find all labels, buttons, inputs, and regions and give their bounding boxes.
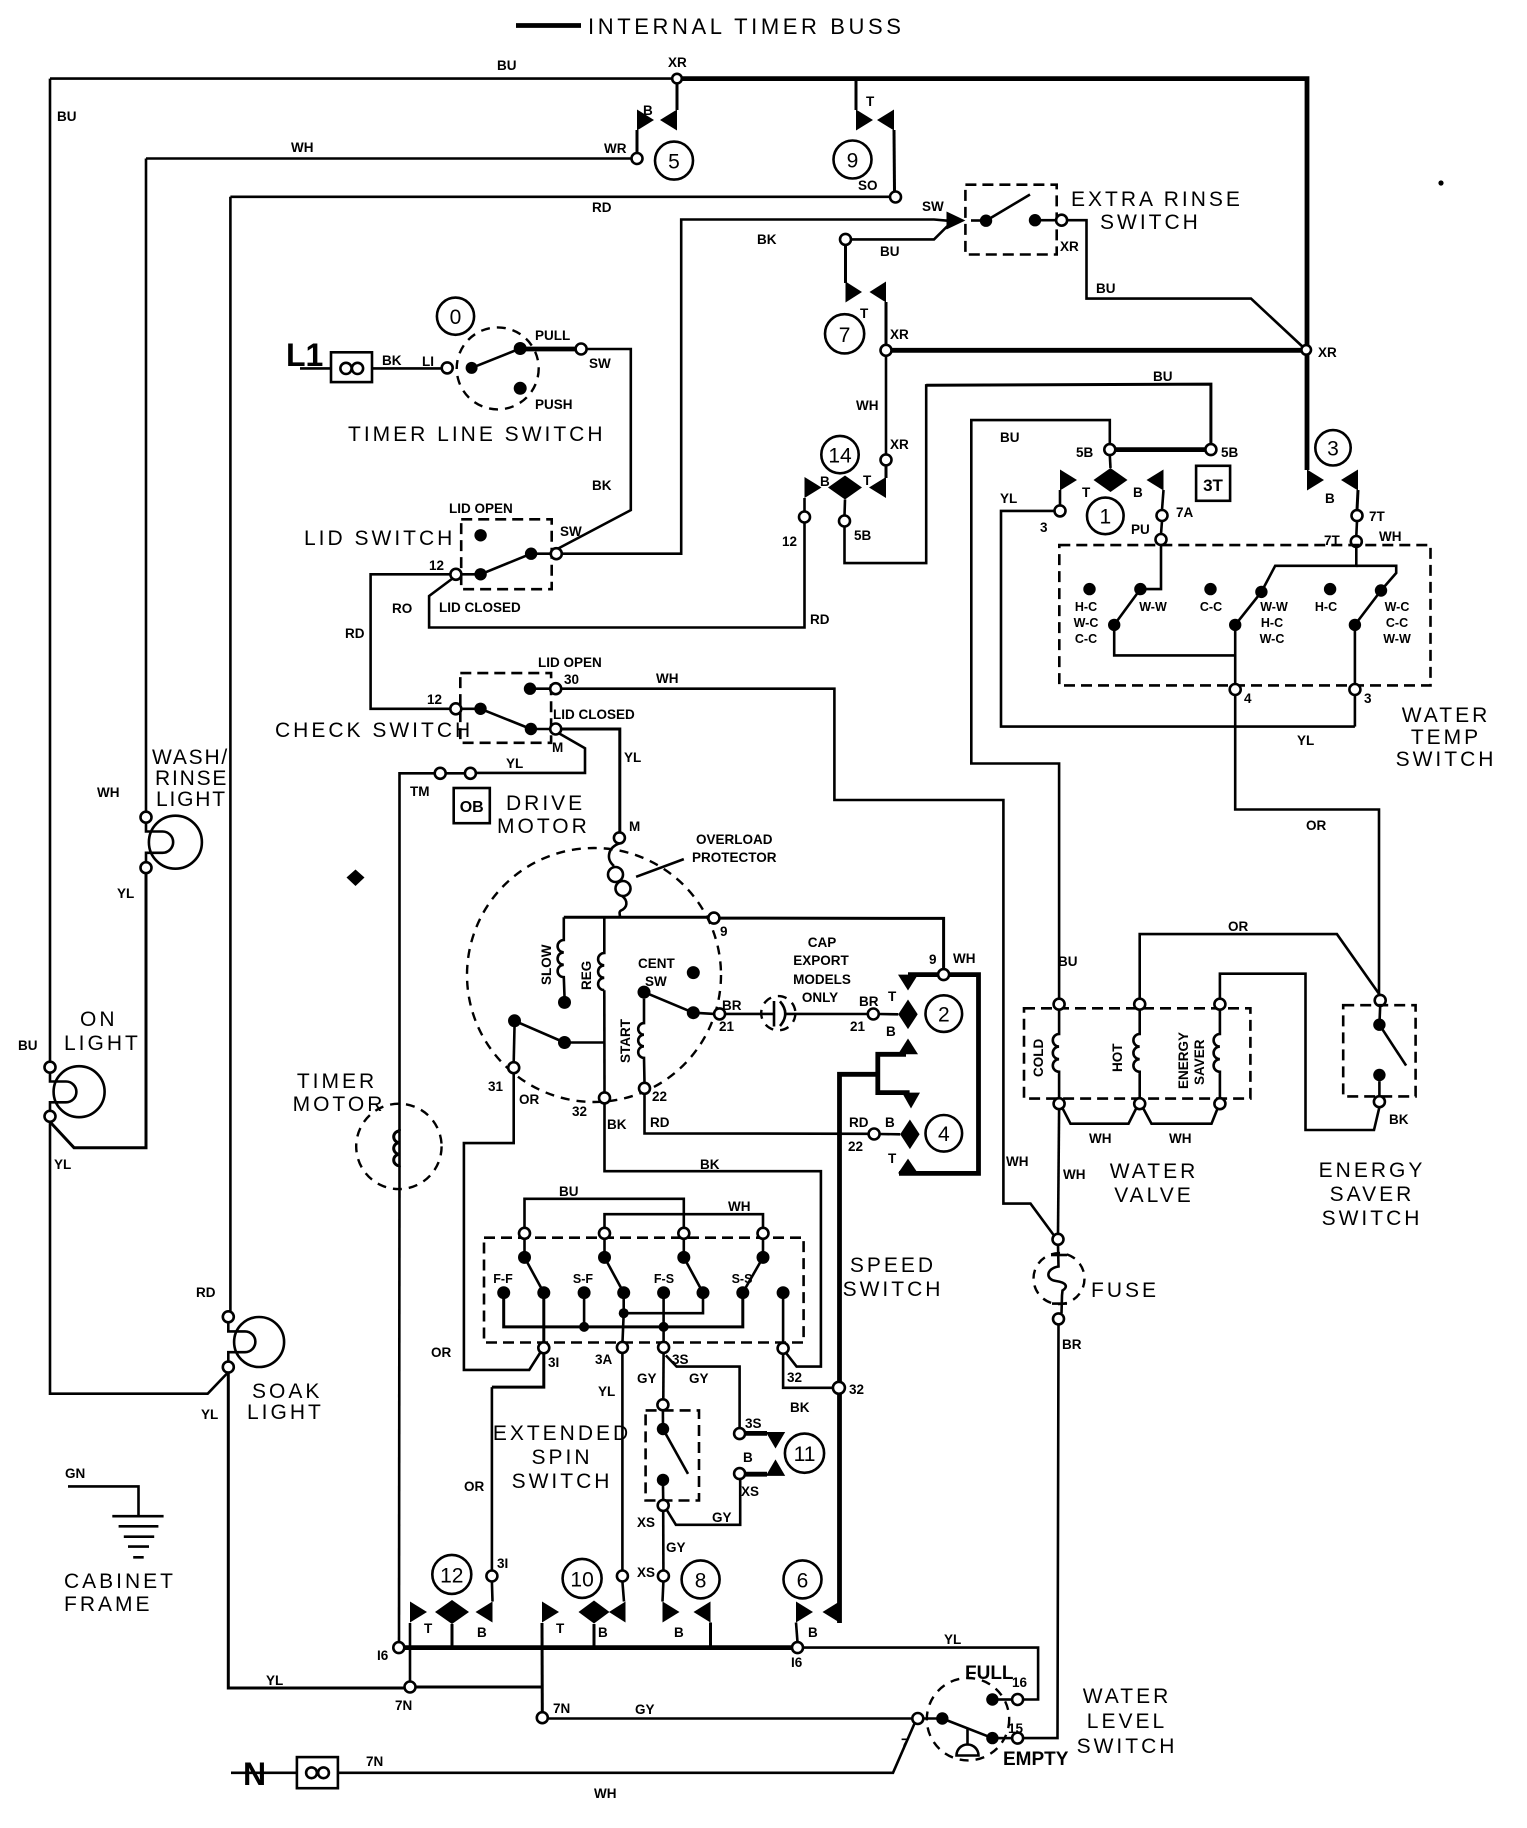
- coil COLD: [1053, 1010, 1059, 1098]
- svg-text:RD: RD: [650, 1115, 670, 1130]
- svg-text:LIGHT: LIGHT: [156, 788, 227, 811]
- svg-text:T: T: [424, 1621, 433, 1636]
- wire BU left vertical: [49, 79, 52, 1062]
- speed switch internal bus: [504, 1293, 743, 1327]
- wire motor top bus: [564, 916, 709, 919]
- svg-text:7: 7: [839, 324, 851, 347]
- node 9 right open circle: [938, 969, 949, 980]
- lid switch SW terminal: [551, 548, 562, 559]
- water valve dashed box: [1024, 1008, 1250, 1098]
- terminal circle 1: [1087, 498, 1124, 535]
- svg-text:3: 3: [1364, 691, 1372, 706]
- svg-text:LIGHT: LIGHT: [247, 1401, 324, 1424]
- temp sw dot H-C: [1083, 583, 1095, 595]
- node 5B left open circle: [1104, 444, 1115, 455]
- svg-text:YL: YL: [598, 1384, 615, 1399]
- svg-text:WR: WR: [604, 141, 627, 156]
- node 7T open circle: [1352, 510, 1363, 521]
- wire XS down to node: [662, 1511, 665, 1571]
- timer line switch dashed circle: [457, 327, 539, 409]
- svg-text:OVERLOAD: OVERLOAD: [696, 832, 773, 847]
- svg-text:T: T: [1082, 485, 1091, 500]
- plug connector N: [297, 1757, 338, 1788]
- speed switch dashed box: [484, 1238, 804, 1343]
- connector flags block 11 vertical pair: [766, 1432, 785, 1449]
- terminal circle 14: [821, 436, 858, 473]
- node XR2 open circle: [881, 454, 892, 465]
- svg-text:7N: 7N: [395, 1698, 412, 1713]
- svg-text:T: T: [860, 306, 869, 321]
- svg-text:B: B: [1133, 485, 1143, 500]
- svg-text:LID SWITCH: LID SWITCH: [304, 527, 455, 550]
- svg-text:W-W: W-W: [1139, 600, 1167, 614]
- plug connector L1: [331, 352, 372, 382]
- water valve COLD bottom terminal: [1054, 1098, 1065, 1109]
- svg-text:7N: 7N: [553, 1701, 570, 1716]
- svg-text:7A: 7A: [1176, 505, 1194, 520]
- wire GY 3S branch to 3S block11: [666, 1355, 740, 1428]
- wire 30 dot to terminal: [530, 687, 550, 690]
- svg-text:7: 7: [901, 1736, 909, 1751]
- node TM terminal circles: [465, 768, 476, 779]
- svg-text:12: 12: [782, 534, 797, 549]
- svg-text:T: T: [556, 1621, 565, 1636]
- terminal circle 2: [926, 995, 963, 1032]
- svg-text:5B: 5B: [1221, 445, 1239, 460]
- speed switch contact dots row: [497, 1286, 510, 1299]
- svg-text:WH: WH: [953, 951, 976, 966]
- svg-text:3T: 3T: [1203, 476, 1223, 495]
- svg-text:BU: BU: [1058, 954, 1078, 969]
- svg-text:SW: SW: [645, 974, 667, 989]
- svg-text:10: 10: [570, 1569, 593, 1592]
- wire 7N-1 to 7N-2 drop: [416, 1686, 543, 1689]
- svg-text:TIMER LINE SWITCH: TIMER LINE SWITCH: [348, 423, 606, 446]
- start switch pivot dot: [638, 986, 651, 999]
- wire BK lid SW right and up to extra rinse: [562, 220, 948, 554]
- wire WH N to water level 7: [338, 1724, 915, 1773]
- svg-text:I6: I6: [791, 1655, 803, 1670]
- node M motor terminal: [614, 832, 625, 843]
- speed terminal 3A: [617, 1342, 628, 1353]
- svg-text:REG: REG: [579, 961, 594, 990]
- node 22 open circle (block4): [869, 1129, 880, 1140]
- svg-text:OR: OR: [1228, 919, 1249, 934]
- svg-text:F-F: F-F: [493, 1272, 513, 1286]
- node 3S block11: [734, 1428, 745, 1439]
- node SW open circle: [576, 344, 587, 355]
- wire 22 to diamond4: [880, 1133, 901, 1136]
- wire SW down to lid switch: [556, 349, 631, 550]
- svg-text:BU: BU: [57, 109, 77, 124]
- connector flags B at block 3: [1307, 470, 1324, 491]
- svg-text:XR: XR: [1318, 345, 1337, 360]
- timer line switch blade: [472, 349, 521, 368]
- svg-text:BU: BU: [1000, 430, 1020, 445]
- soak light bulb: [234, 1317, 284, 1367]
- node 31 motor terminal: [508, 1062, 519, 1073]
- energy saver switch dots and blade: [1373, 1018, 1385, 1030]
- svg-text:T: T: [888, 989, 897, 1004]
- wire pivot3 down to node 3: [1354, 625, 1357, 684]
- speed switch top terminals: [519, 1228, 530, 1239]
- wire internal timer buss thick top right + right vertical to block3: [682, 79, 1308, 470]
- wire OR HOT to energy saver switch: [1140, 934, 1381, 999]
- wire XR thick horizontal: [892, 348, 1305, 353]
- svg-text:BU: BU: [559, 1184, 579, 1199]
- svg-text:W-C: W-C: [1385, 600, 1410, 614]
- terminal circle 6: [784, 1560, 822, 1598]
- water level blade: [942, 1719, 992, 1739]
- wire BU speed switch jumper T1-T3: [525, 1199, 684, 1228]
- overload protector squiggle and contacts: [609, 843, 619, 866]
- svg-text:WH: WH: [656, 671, 679, 686]
- svg-text:21: 21: [719, 1019, 735, 1034]
- connector flags T at terminal 7: [846, 282, 863, 303]
- svg-text:H-C: H-C: [1261, 616, 1283, 630]
- svg-text:12: 12: [429, 558, 444, 573]
- connector flags block 8: [663, 1602, 680, 1623]
- wash/rinse light top terminal: [141, 812, 152, 823]
- check switch contact dot M: [525, 723, 537, 735]
- svg-text:3: 3: [1327, 438, 1339, 461]
- wire Z link block2 to block4 with bus branch: [878, 1054, 910, 1092]
- svg-text:WH: WH: [1089, 1131, 1112, 1146]
- speed terminal 32: [778, 1343, 789, 1354]
- svg-text:BU: BU: [880, 244, 900, 259]
- node 9 motor terminal: [708, 913, 719, 924]
- wire COLD bottom down to fuse junction: [1058, 1109, 1059, 1234]
- svg-text:FRAME: FRAME: [64, 1593, 153, 1616]
- wire FULL dot to 16 terminal: [998, 1698, 1012, 1701]
- svg-text:LID CLOSED: LID CLOSED: [553, 707, 635, 722]
- lid switch blade: [481, 554, 531, 575]
- wire L1 lead: [300, 367, 331, 370]
- overload pointer line: [636, 859, 684, 877]
- terminal circle 10: [563, 1559, 602, 1598]
- svg-text:BR: BR: [859, 994, 879, 1009]
- legend line: internal timer buss: [516, 23, 581, 28]
- svg-text:5: 5: [668, 151, 680, 174]
- svg-text:6: 6: [797, 1570, 809, 1593]
- energy saver switch top terminal: [1375, 995, 1386, 1006]
- svg-text:RD: RD: [849, 1115, 869, 1130]
- svg-text:CHECK SWITCH: CHECK SWITCH: [275, 719, 473, 742]
- wire OR node4 down to energy saver: [1235, 695, 1379, 995]
- svg-text:WH: WH: [728, 1199, 751, 1214]
- cent switch contact dot: [558, 1036, 571, 1049]
- svg-text:SWITCH: SWITCH: [1396, 748, 1497, 771]
- svg-text:XR: XR: [890, 437, 909, 452]
- wire WH XR down to XR2: [885, 356, 888, 455]
- svg-text:WH: WH: [1063, 1167, 1086, 1182]
- terminal circle 9: [834, 141, 872, 179]
- svg-text:31: 31: [488, 1079, 504, 1094]
- svg-text:3: 3: [1040, 520, 1048, 535]
- svg-text:RO: RO: [392, 601, 412, 616]
- svg-text:12: 12: [427, 692, 442, 707]
- extra rinse SW arrow: [947, 212, 966, 230]
- wire 12 lid switch left down to check switch: [371, 574, 451, 709]
- wire XR to flag: [676, 83, 679, 110]
- svg-text:B: B: [643, 103, 653, 118]
- svg-text:4: 4: [938, 1123, 950, 1146]
- wire pivot1 to node4 riser: [1114, 625, 1235, 656]
- svg-text:B: B: [820, 474, 830, 489]
- wire 12 to pivot (check): [461, 707, 480, 710]
- extra rinse switch dashed box: [965, 185, 1056, 255]
- wire RD bus: [230, 196, 890, 199]
- svg-text:C-C: C-C: [1200, 600, 1222, 614]
- svg-text:3S: 3S: [745, 1416, 762, 1431]
- ext spin contact dots and blade: [657, 1423, 669, 1435]
- svg-text:DRIVE: DRIVE: [506, 792, 585, 815]
- svg-text:BK: BK: [382, 353, 402, 368]
- wire WH 9 to node 9 right: [719, 918, 943, 969]
- wire EMPTY dot to terminal: [998, 1737, 1012, 1740]
- svg-text:WASH/: WASH/: [152, 746, 229, 769]
- wire WH bus to WR: [146, 157, 632, 160]
- wire contact to M terminal: [531, 728, 550, 731]
- water level FULL contact dot: [986, 1693, 998, 1705]
- wire TM line below coil to 16: [398, 1166, 401, 1642]
- wire YL M terminal to motor M: [561, 729, 620, 832]
- svg-text:SWITCH: SWITCH: [512, 1470, 613, 1493]
- wire flag 9 to SO: [893, 130, 897, 192]
- wire RD lid 12 branch down right to block14 12: [429, 523, 804, 628]
- svg-text:C-C: C-C: [1386, 616, 1408, 630]
- wire flag to WR: [636, 130, 639, 153]
- check switch 30 contact dot: [524, 683, 536, 695]
- ON light bulb: [54, 1066, 105, 1117]
- wire 7A to PU: [1161, 521, 1162, 534]
- svg-text:C-C: C-C: [1075, 632, 1097, 646]
- soak light bottom terminal: [223, 1362, 234, 1373]
- node WR open circle: [632, 153, 643, 164]
- wire WH left vertical to wash/rinse light: [145, 159, 148, 812]
- svg-text:XS: XS: [637, 1515, 655, 1530]
- junction dot S-F: [579, 1322, 589, 1332]
- svg-text:B: B: [598, 1625, 608, 1640]
- svg-text:LIGHT: LIGHT: [64, 1032, 141, 1055]
- timer motor coil: [394, 1131, 400, 1166]
- wire contact to 21: [693, 1013, 714, 1014]
- node 22 motor terminal: [639, 1083, 650, 1094]
- lid switch pivot dot: [474, 568, 486, 580]
- timer motor coil through-line: [398, 1129, 401, 1167]
- svg-text:RD: RD: [196, 1285, 216, 1300]
- wire WH 30 to fuse junction: [561, 689, 1054, 1236]
- wire flag 8 to bus: [709, 1623, 712, 1648]
- speed switch internal upper link contact2-contact3: [624, 1293, 703, 1314]
- extra rinse contact dots and blade: [980, 215, 992, 227]
- svg-text:RD: RD: [345, 626, 365, 641]
- timer line switch pivot dot: [466, 362, 478, 374]
- svg-text:WH: WH: [291, 140, 314, 155]
- water temp switch dashed box: [1059, 545, 1430, 685]
- water level pivot dot: [936, 1712, 948, 1724]
- terminal circle 12: [432, 1555, 471, 1594]
- ext spin dashed box: [646, 1410, 699, 1500]
- wire 9 node to right bus: [899, 975, 979, 1174]
- svg-text:SO: SO: [858, 178, 878, 193]
- svg-text:PU: PU: [1131, 522, 1150, 537]
- svg-text:RD: RD: [810, 612, 830, 627]
- node 16 left: [393, 1642, 404, 1653]
- svg-text:PROTECTOR: PROTECTOR: [692, 850, 777, 865]
- svg-text:TEMP: TEMP: [1411, 726, 1481, 749]
- wire flag3 down to 7T: [1357, 490, 1358, 510]
- svg-text:11: 11: [794, 1443, 816, 1466]
- svg-text:LEVEL: LEVEL: [1087, 1710, 1167, 1733]
- svg-text:OR: OR: [519, 1092, 540, 1107]
- wire 3S tap down: [662, 1327, 665, 1342]
- svg-text:WH: WH: [1169, 1131, 1192, 1146]
- wire WH valve bottoms linked: [1063, 1108, 1137, 1124]
- svg-text:PUSH: PUSH: [535, 397, 573, 412]
- temp sw dot H-C 2: [1324, 583, 1336, 595]
- temp sw blade 2: [1235, 592, 1261, 625]
- svg-text:WH: WH: [97, 785, 120, 800]
- svg-text:BU: BU: [497, 58, 517, 73]
- svg-text:HOT: HOT: [1110, 1043, 1125, 1072]
- svg-text:32: 32: [849, 1382, 864, 1397]
- wire YL 16 bus thick: [404, 1645, 792, 1650]
- svg-text:XS: XS: [637, 1565, 655, 1580]
- water level switch dashed circle: [927, 1678, 1009, 1760]
- check switch terminal 12: [450, 703, 461, 714]
- svg-text:SW: SW: [922, 199, 944, 214]
- svg-text:5B: 5B: [1076, 445, 1094, 460]
- wire 32 terminal link to bus node: [783, 1354, 832, 1388]
- node 5B right open circle: [1205, 444, 1216, 455]
- svg-text:LID CLOSED: LID CLOSED: [439, 600, 521, 615]
- svg-text:SLOW: SLOW: [539, 944, 554, 985]
- svg-text:7N: 7N: [366, 1754, 383, 1769]
- wire S-S iso down to 32 terminal: [782, 1293, 785, 1343]
- dot SLOW end: [558, 996, 571, 1009]
- wire node3 up from YL: [1354, 695, 1357, 727]
- temp sw blade 3: [1355, 591, 1381, 625]
- svg-text:9: 9: [847, 150, 859, 173]
- wire 3A to B flag 10: [622, 1582, 624, 1602]
- wires terminals to dots: [523, 1239, 526, 1258]
- check switch blade: [481, 709, 531, 729]
- svg-text:M: M: [629, 819, 640, 834]
- node BU open circle left of flags 7: [840, 234, 851, 245]
- lid switch unused contact dot: [474, 529, 486, 541]
- svg-text:16: 16: [1012, 1675, 1028, 1690]
- svg-text:EMPTY: EMPTY: [1003, 1749, 1069, 1770]
- connector flags block 10: T flag, diamond, B flag: [542, 1602, 559, 1623]
- energy saver switch bottom terminal: [1374, 1096, 1385, 1107]
- svg-text:B: B: [743, 1450, 753, 1465]
- node 5B open circle (block14): [839, 516, 850, 527]
- lid switch dashed box: [461, 519, 552, 589]
- svg-text:YL: YL: [624, 750, 641, 765]
- wire 7N-1 drop from T flag 12: [409, 1623, 412, 1682]
- svg-text:1: 1: [1099, 506, 1111, 529]
- wire RD left vertical to soak light: [229, 197, 232, 1312]
- reference mark diamond: [347, 870, 365, 887]
- svg-text:32: 32: [572, 1104, 587, 1119]
- soak light top terminal: [223, 1311, 234, 1322]
- node 7N-2: [537, 1712, 548, 1723]
- svg-text:BU: BU: [1096, 281, 1116, 296]
- wire diamond12 to bus: [451, 1624, 454, 1648]
- water valve ENERGY SAVER bottom terminal: [1214, 1098, 1225, 1109]
- svg-text:GY: GY: [635, 1702, 655, 1717]
- svg-text:BK: BK: [757, 232, 777, 247]
- wire PULL to SW: [520, 347, 575, 352]
- node 7T2 open circle: [1351, 536, 1362, 547]
- svg-text:FUSE: FUSE: [1091, 1279, 1159, 1302]
- node 31 bottom: [486, 1571, 497, 1582]
- svg-text:COLD: COLD: [1031, 1039, 1046, 1077]
- cent switch pivot dot: [508, 1014, 521, 1027]
- wire YL soak light down to 7N: [228, 1373, 404, 1688]
- svg-text:H-C: H-C: [1315, 600, 1337, 614]
- wire flag14 down to 12 circle: [803, 498, 806, 512]
- node LI open circle: [442, 362, 453, 373]
- node 12 open circle (block14): [799, 512, 810, 523]
- wire REG down to 32: [603, 990, 606, 1092]
- svg-text:I6: I6: [377, 1648, 389, 1663]
- capacitor dashed circle: [761, 996, 795, 1030]
- svg-text:OR: OR: [464, 1479, 485, 1494]
- ON light top terminal: [45, 1062, 56, 1073]
- wire 5B thick link: [1115, 447, 1205, 452]
- wire YL bus to water level: [803, 1648, 1038, 1700]
- wire M to TM line: [476, 733, 585, 773]
- node 7A open circle: [1157, 510, 1168, 521]
- wire BU extra rinse to XR node: [1067, 220, 1304, 348]
- svg-text:22: 22: [848, 1139, 863, 1154]
- wire capacitor to 21 block2: [787, 1013, 868, 1016]
- wire 9 node left to flag2: [908, 972, 938, 977]
- svg-text:14: 14: [828, 445, 852, 468]
- svg-text:WH: WH: [1379, 529, 1402, 544]
- svg-text:EXPORT: EXPORT: [793, 953, 849, 968]
- node 32 motor terminal: [599, 1092, 610, 1103]
- wire YL 3A down to bottom 3A: [621, 1353, 624, 1571]
- svg-text:GY: GY: [637, 1371, 657, 1386]
- svg-text:BK: BK: [700, 1157, 720, 1172]
- speed switch blades: [525, 1257, 544, 1292]
- svg-text:TIMER: TIMER: [297, 1070, 377, 1093]
- node SO open circle: [890, 192, 901, 203]
- terminal circle 3: [1315, 430, 1350, 465]
- svg-text:SW: SW: [589, 356, 611, 371]
- svg-text:LI: LI: [422, 354, 434, 369]
- svg-text:SPIN: SPIN: [531, 1446, 592, 1469]
- svg-text:B: B: [674, 1625, 684, 1640]
- temp sw pivot dot 3: [1349, 619, 1361, 631]
- wire flag1 right down to 7A: [1162, 490, 1164, 510]
- svg-text:INTERNAL TIMER BUSS: INTERNAL TIMER BUSS: [588, 14, 905, 39]
- dot cent sw spare: [687, 966, 700, 979]
- wire 7 to pivot: [923, 1717, 942, 1720]
- svg-text:SAVER: SAVER: [1192, 1039, 1207, 1085]
- wire 31 terminal down to bottom 31: [492, 1353, 544, 1387]
- svg-text:YL: YL: [944, 1632, 961, 1647]
- wire BR 21 to capacitor: [725, 1013, 773, 1016]
- temp sw dot C-C: [1204, 583, 1216, 595]
- svg-text:WH: WH: [1006, 1154, 1029, 1169]
- drive motor dashed circle: [467, 848, 721, 1102]
- check switch pivot dot: [474, 703, 486, 715]
- wire contact to REG line: [565, 1041, 605, 1044]
